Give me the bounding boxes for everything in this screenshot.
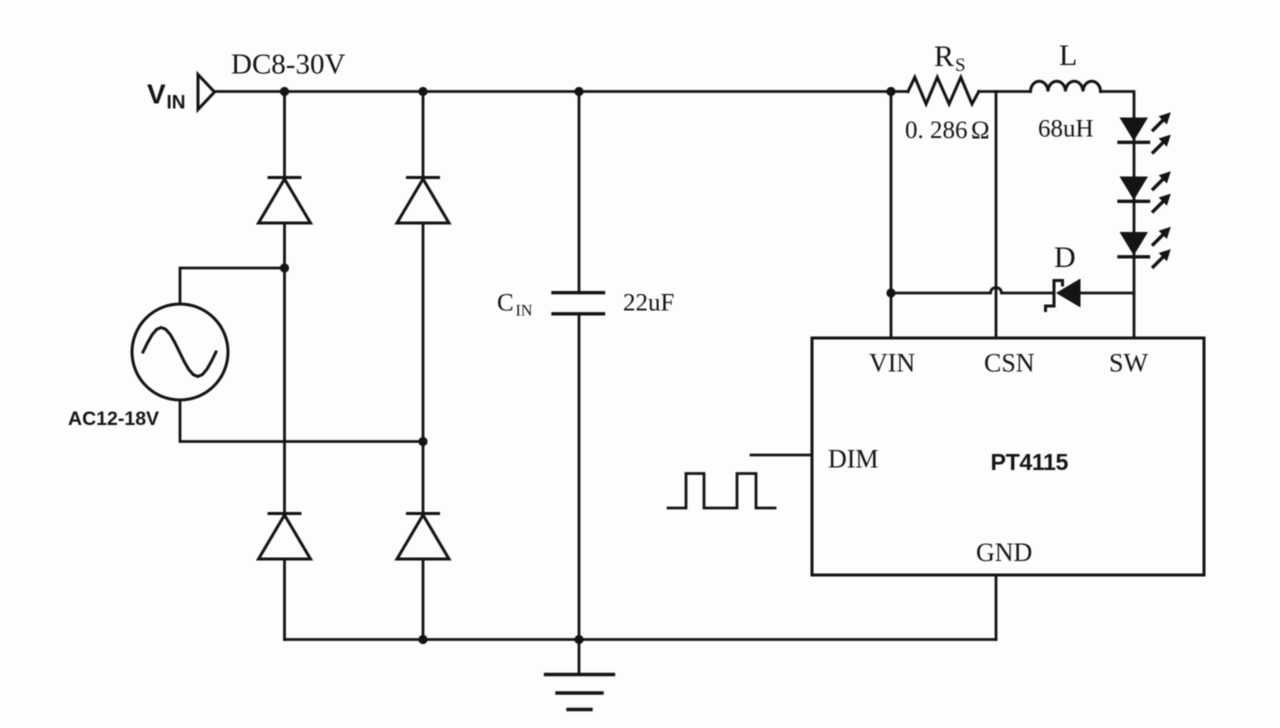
node dot VIN diode row xyxy=(886,288,895,297)
svg-text:SW: SW xyxy=(1109,349,1148,378)
wire bridge column2 top xyxy=(422,92,425,178)
wire AC bottom terminal xyxy=(180,400,423,442)
wire bottom rail xyxy=(285,638,997,641)
svg-text:C: C xyxy=(497,290,514,317)
wire column2 bottom xyxy=(422,559,425,640)
diode BR3 cathode bar xyxy=(269,512,300,515)
svg-text:IN: IN xyxy=(516,303,533,320)
svg-text:22uF: 22uF xyxy=(623,290,674,317)
resistor R1 Rs zigzag xyxy=(908,77,979,104)
svg-text:AC12-18V: AC12-18V xyxy=(68,408,159,430)
capacitor CIN bottom wire xyxy=(578,314,581,640)
wire column1 bottom xyxy=(283,559,286,640)
AC source V1 circle xyxy=(132,304,228,400)
node dot AC top xyxy=(280,263,289,272)
wire CSN pin vertical xyxy=(995,92,998,339)
label CIN xyxy=(497,290,533,320)
input terminal VIN triangle xyxy=(198,75,215,110)
svg-text:68uH: 68uH xyxy=(1038,116,1094,143)
wire AC top terminal xyxy=(180,268,285,304)
svg-text:VIN: VIN xyxy=(869,349,915,378)
svg-text:R: R xyxy=(934,40,954,73)
svg-text:S: S xyxy=(955,55,966,76)
diode BR2 cathode bar xyxy=(408,176,439,179)
wire VIN pin vertical xyxy=(890,92,893,339)
svg-text:V: V xyxy=(147,79,166,110)
wire DIM pin xyxy=(751,454,812,457)
node dot bottom rail cap xyxy=(574,635,583,644)
diode BR4 cathode bar xyxy=(408,512,439,515)
wire from L to SW corner xyxy=(1101,92,1135,118)
svg-text:DIM: DIM xyxy=(828,445,879,474)
label VIN terminal xyxy=(147,79,186,114)
LED D2 xyxy=(1120,177,1149,201)
ground symbol xyxy=(546,640,614,710)
LED arrows D3 xyxy=(1153,227,1171,267)
LED arrows D1 xyxy=(1153,112,1171,152)
capacitor CIN plates xyxy=(553,291,604,294)
wire GND pin vertical xyxy=(995,575,998,640)
svg-text:DC8-30V: DC8-30V xyxy=(231,49,345,81)
capacitor CIN top wire xyxy=(578,92,581,293)
svg-text:0. 286Ω: 0. 286Ω xyxy=(905,117,990,144)
LED arrows D2 xyxy=(1153,171,1171,211)
AC source sine wave xyxy=(143,328,216,377)
svg-text:D: D xyxy=(1054,241,1076,274)
svg-text:IN: IN xyxy=(167,93,186,114)
svg-text:CSN: CSN xyxy=(984,349,1035,378)
diode D schottky cathode bar xyxy=(1046,281,1063,311)
wire diode D row with hop over CSN wire xyxy=(891,288,1053,294)
wire column2 mid xyxy=(422,223,425,514)
LED D1 xyxy=(1120,118,1149,142)
inductor L1 humps xyxy=(1031,81,1101,91)
wire diode D to SW vertical xyxy=(1081,292,1135,295)
diode BR1 triangle xyxy=(259,179,311,223)
diode BR3 triangle xyxy=(259,515,311,559)
node dot bottom rail col2 xyxy=(418,635,427,644)
node dot top rail col2 xyxy=(418,87,427,96)
IC U1 PT4115 box xyxy=(812,338,1204,575)
diode D triangle xyxy=(1056,279,1081,308)
svg-text:GND: GND xyxy=(976,538,1032,567)
wire LED chain vertical xyxy=(1133,118,1136,339)
LED D3 xyxy=(1120,232,1149,256)
node dot AC bottom xyxy=(418,437,427,446)
svg-text:PT4115: PT4115 xyxy=(991,449,1069,475)
svg-text:L: L xyxy=(1059,39,1077,72)
diode BR1 cathode bar xyxy=(269,176,300,179)
wire between Rs and L xyxy=(979,90,1031,93)
wire bridge column1 top xyxy=(283,92,286,178)
node dot top rail cap xyxy=(574,87,583,96)
diode BR2 triangle xyxy=(397,179,449,223)
wire column1 mid xyxy=(283,223,286,514)
PWM waveform xyxy=(668,474,775,509)
wire top rail left segment xyxy=(215,90,909,93)
label Rs xyxy=(934,40,966,76)
node dot top rail col1 xyxy=(280,87,289,96)
diode BR4 triangle xyxy=(397,515,449,559)
node dot top rail Rs xyxy=(886,87,895,96)
